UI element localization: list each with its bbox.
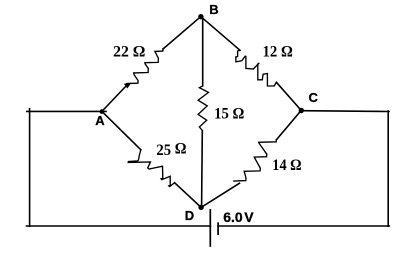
resistor 22ohm body (zigzag) <box>127 49 163 84</box>
svg-text:C: C <box>309 90 319 105</box>
node B (junction dot) <box>198 14 203 19</box>
wire: bottom rail left segment <box>27 225 211 227</box>
svg-text:B: B <box>209 2 218 17</box>
resistor 12ohm branch B-C: lead from node B <box>201 17 240 51</box>
resistor 25ohm branch A-D: lead from node A <box>102 111 141 149</box>
current arrow on branch A-B <box>124 83 132 89</box>
resistor 14ohm branch D-C: lead from node D <box>201 183 239 207</box>
node A (junction dot) <box>100 109 105 114</box>
wire: lead from 14ohm to node C <box>276 110 301 139</box>
svg-text:A: A <box>95 113 105 128</box>
svg-text:15 Ω: 15 Ω <box>214 105 244 122</box>
svg-text:D: D <box>185 208 194 223</box>
wire: top-left horizontal (node A to left rail) <box>27 110 106 112</box>
battery B1 6.0 V: short plate (-) <box>217 223 219 234</box>
resistor 12ohm body (zigzag) <box>236 50 277 86</box>
wire: 15ohm to node D (vertical) <box>201 131 204 207</box>
battery B1 6.0 V: long plate (+) <box>209 210 211 246</box>
node D (junction dot) <box>198 205 203 210</box>
resistor 25ohm body (zigzag) <box>128 150 174 187</box>
wire: node B to 15ohm (vertical) <box>202 17 204 86</box>
wire: lead from 22ohm to node B <box>163 17 201 49</box>
resistor 14ohm body (zigzag) <box>234 140 277 181</box>
node C (junction dot) <box>299 108 304 113</box>
resistor 22ohm branch A-B: lead from node A <box>102 85 127 111</box>
wire: left rail vertical <box>29 109 31 227</box>
wire: bottom rail right segment <box>218 225 389 227</box>
resistor 15ohm body (zigzag) <box>198 86 208 131</box>
svg-text:14 Ω: 14 Ω <box>272 157 301 174</box>
svg-text:12 Ω: 12 Ω <box>263 44 293 61</box>
wire: right rail vertical <box>387 111 389 226</box>
wire: top-right horizontal (node C to right rail) <box>301 110 389 113</box>
svg-text:6.0V: 6.0V <box>223 209 254 225</box>
wire: lead from 12ohm to node C <box>276 82 301 110</box>
svg-text:22 Ω: 22 Ω <box>113 44 145 61</box>
svg-text:25 Ω: 25 Ω <box>156 141 186 159</box>
wire: lead from 25ohm to node D <box>175 183 202 208</box>
